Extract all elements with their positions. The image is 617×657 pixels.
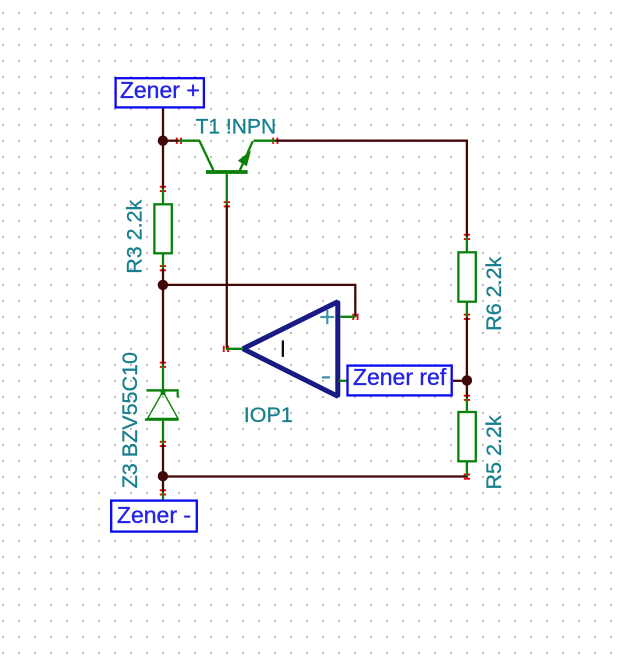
pin Zener- label stub — [162, 492, 164, 500]
pin-end marker T1 collector — [176, 138, 182, 144]
wire Z3 anode to bottom junction — [162, 444, 164, 476]
svg-text:Zener +: Zener + — [120, 77, 200, 103]
net label "Zener -" — [111, 501, 197, 532]
pin-end marker Zener- label pin — [160, 489, 166, 495]
wire R6 bottom to Zener-ref junction — [466, 317, 468, 381]
resistor R5 — [458, 398, 475, 477]
junction at Zener ref node — [462, 375, 472, 385]
svg-text:R3 2.2k: R3 2.2k — [123, 199, 147, 273]
pin-end marker T1 base — [224, 201, 230, 207]
resistor R6 — [458, 237, 475, 317]
wire divider junction down to Z3 cathode — [162, 285, 164, 365]
transistor T1 — [179, 141, 275, 205]
pin-end marker op-amp output — [223, 346, 229, 352]
pin-end marker R6 bottom — [464, 314, 470, 320]
transistor T1 base bar — [206, 170, 248, 174]
wire Zener ref label to right column junction — [453, 380, 466, 382]
pin-end marker R5 top — [464, 395, 470, 401]
pin-end marker R3 bottom — [160, 265, 166, 271]
pin-end marker Z3 cathode — [160, 362, 166, 368]
net label "Zener ref" — [348, 364, 452, 396]
pin-end marker op-amp + input — [352, 314, 358, 320]
svg-text:T1 !NPN: T1 !NPN — [196, 115, 277, 138]
wire op-amp output up to T1 base — [226, 204, 228, 348]
op-amp ideal "I" mark — [282, 340, 284, 357]
svg-text:Z3 BZV55C10: Z3 BZV55C10 — [118, 352, 142, 488]
wire bottom rail R5 to Zener- junction — [162, 475, 468, 477]
resistor R3 — [154, 189, 171, 268]
wire T1 emitter to right column and down to R6 — [275, 141, 467, 237]
zener diode Z3 — [145, 365, 179, 444]
op-amp - input symbol — [322, 376, 330, 378]
wire bottom junction to Zener- label — [162, 476, 164, 492]
pin-end marker T1 emitter — [272, 138, 278, 144]
transistor T1 emitter arrow — [238, 151, 251, 167]
svg-text:R5 2.2k: R5 2.2k — [482, 415, 506, 489]
wire collector junction down to R3 top — [162, 141, 164, 189]
junction at Zener- node — [158, 471, 168, 481]
svg-text:R6 2.2k: R6 2.2k — [482, 256, 506, 330]
svg-text:Zener -: Zener - — [117, 502, 191, 528]
junction at divider node — [158, 280, 168, 290]
op-amp + input symbol — [320, 310, 334, 324]
svg-text:Zener ref: Zener ref — [353, 364, 447, 390]
pin-end marker Z3 anode — [160, 441, 166, 447]
wire divider node to op-amp + input — [163, 285, 355, 317]
wire Zener+ label to collector junction — [162, 109, 164, 141]
pin-end marker R6 top — [464, 234, 470, 240]
pin-end marker R3 top — [160, 186, 166, 192]
pin-end marker R5 bottom — [464, 474, 470, 480]
junction at collector node — [158, 136, 168, 146]
net label "Zener +" — [116, 77, 204, 107]
op-amp IOP1 — [226, 302, 355, 397]
wire R3 bottom to divider junction — [162, 268, 164, 285]
svg-text:IOP1: IOP1 — [244, 403, 293, 427]
wire collector junction to T1 collector pin — [163, 140, 179, 142]
wire Zener-ref junction to R5 top — [466, 380, 468, 398]
